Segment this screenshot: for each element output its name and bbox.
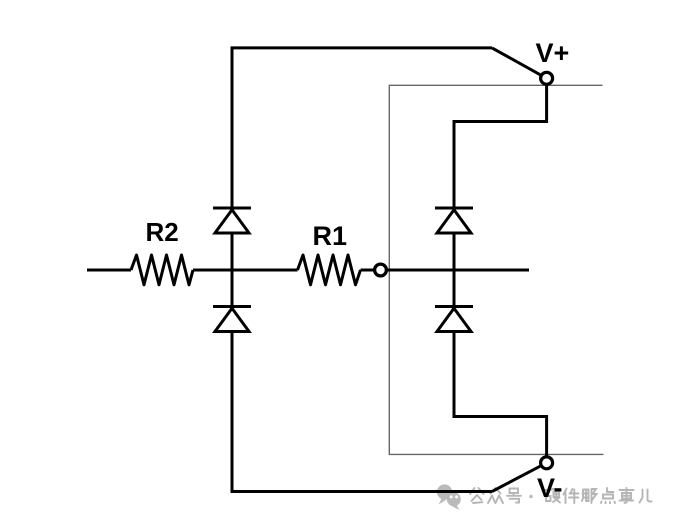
IC boundary (gray) [389,85,603,454]
wire: input lead (left of R2) [87,269,131,272]
件 [564,489,579,504]
wire: left column between diodes [231,234,234,306]
wire: top rail from left column to V+ switch [232,48,492,208]
node V+ terminal [541,72,553,84]
· [529,495,532,498]
wire: output segment (right of R1 through right column junction) [361,269,530,272]
diode lower-right (cathode up) [435,307,473,332]
wire: right column lower to V- stem [454,332,547,463]
那 [582,489,597,503]
node: open terminal on output wire [375,264,387,276]
resistor R1 [298,255,361,285]
svg-text:V+: V+ [536,38,570,68]
watermark text 公众号 · 硬件那点事儿 [470,488,652,503]
儿 [640,490,652,503]
事 [620,488,634,503]
wire: V- switch diagonal [492,463,547,492]
resistor R2 [131,255,193,285]
diode upper-right (cathode up) [435,208,473,233]
公 [470,488,484,503]
众 [488,488,503,503]
wire: right column between diodes [453,234,456,306]
wire: between R2 and R1 (through left column junction) [193,269,298,272]
diode upper-left (cathode up) [213,208,251,233]
watermark logo [437,484,461,510]
点 [601,488,615,503]
wire: V+ switch diagonal [492,48,547,78]
wire: V+ stem down to upper-right diode [454,78,547,208]
号 [507,489,521,503]
wire: left column lower + bottom rail [232,332,492,492]
svg-text:R1: R1 [313,221,348,251]
node V- terminal [541,457,553,469]
硬 [545,489,560,503]
svg-text:V-: V- [537,473,563,503]
diode lower-left (cathode up) [213,307,251,332]
svg-text:R2: R2 [146,217,179,247]
